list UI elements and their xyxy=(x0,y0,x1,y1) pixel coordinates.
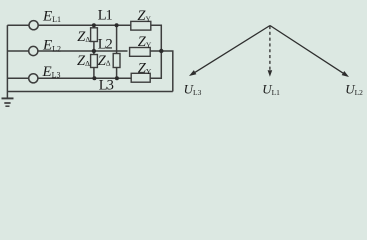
svg-text:L2: L2 xyxy=(98,37,113,53)
svg-text:L3: L3 xyxy=(99,78,114,94)
svg-text:L1: L1 xyxy=(98,8,113,24)
